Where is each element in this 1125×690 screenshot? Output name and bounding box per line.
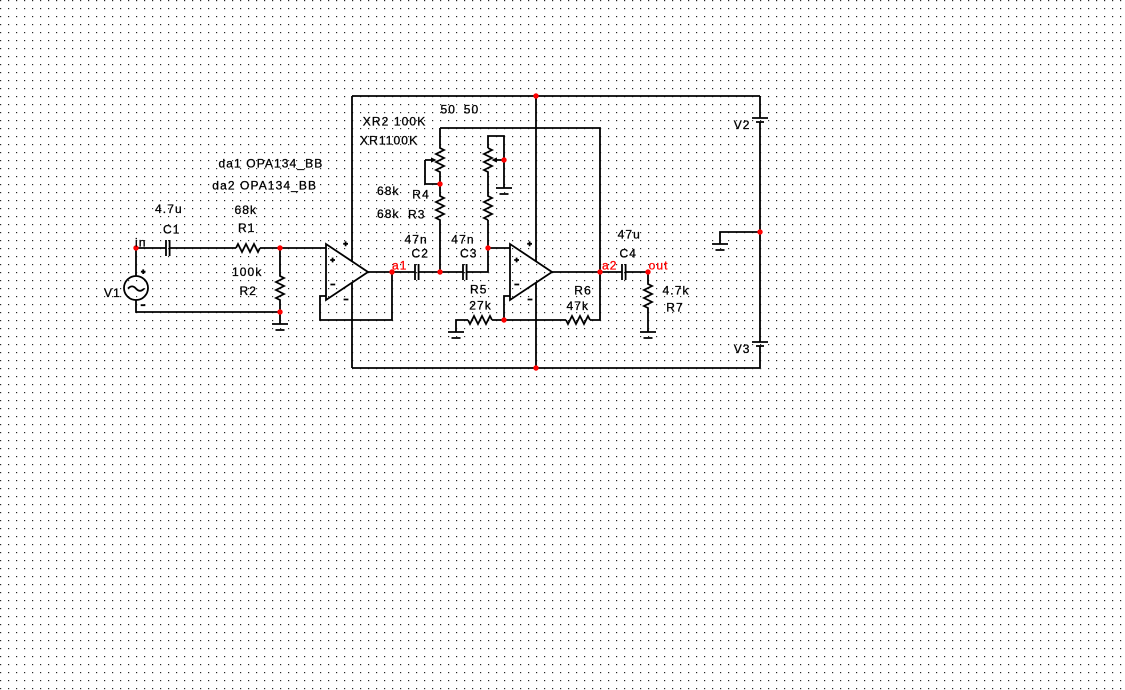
svg-text:R7: R7 (666, 301, 684, 315)
svg-text:XR1100K: XR1100K (360, 134, 418, 148)
svg-text:R3: R3 (408, 207, 426, 221)
svg-text:100k: 100k (232, 265, 262, 279)
svg-text:V2: V2 (734, 118, 751, 132)
svg-text:XR2 100K: XR2 100K (363, 115, 427, 129)
svg-text:68k: 68k (377, 184, 400, 198)
svg-text:47n: 47n (405, 232, 428, 246)
svg-text:V1: V1 (104, 286, 121, 300)
svg-text:C1: C1 (163, 223, 181, 237)
svg-text:68k: 68k (235, 203, 258, 217)
svg-text:4.7u: 4.7u (155, 202, 183, 216)
svg-text:out: out (649, 259, 669, 273)
svg-text:da2 OPA134_BB: da2 OPA134_BB (212, 178, 317, 192)
svg-text:da1 OPA134_BB: da1 OPA134_BB (219, 156, 324, 170)
svg-text:R4: R4 (412, 188, 430, 202)
svg-text:a1: a1 (392, 258, 408, 272)
svg-text:V3: V3 (734, 342, 751, 356)
svg-text:47u: 47u (618, 228, 641, 242)
svg-text:R5: R5 (470, 283, 488, 297)
svg-text:47k: 47k (567, 299, 590, 313)
svg-text:50: 50 (441, 102, 457, 116)
svg-text:50: 50 (464, 102, 480, 116)
svg-text:R6: R6 (574, 284, 592, 298)
svg-text:27k: 27k (469, 298, 492, 312)
svg-text:C2: C2 (412, 246, 430, 260)
svg-text:47n: 47n (451, 232, 474, 246)
svg-text:68k: 68k (377, 207, 400, 221)
svg-text:C4: C4 (620, 246, 638, 260)
svg-text:in: in (135, 236, 147, 250)
svg-text:R2: R2 (240, 284, 258, 298)
svg-text:4.7k: 4.7k (663, 284, 690, 298)
svg-text:a2: a2 (602, 259, 618, 273)
svg-text:R1: R1 (238, 221, 256, 235)
svg-text:C3: C3 (460, 246, 478, 260)
